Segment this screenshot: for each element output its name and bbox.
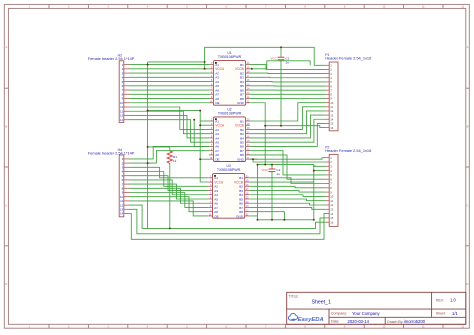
connector P1 1x16 female header [325, 53, 371, 131]
wire U1.GND rail to P1.16 [250, 103, 325, 128]
svg-text:Sheet:: Sheet: [436, 312, 446, 316]
svg-text:TXB0108PWR: TXB0108PWR [217, 168, 241, 172]
wire H2.13 to U2.A4 [129, 115, 209, 137]
resistor R1 1k [167, 147, 177, 164]
junction R1 bottom on rail A [169, 227, 171, 229]
wire rail to P2.3 [314, 165, 325, 167]
wire H2.8 to U1 pin 8 [129, 93, 209, 95]
capacitor C2 1u [261, 165, 280, 220]
wire U3.B to P2.8 [249, 186, 325, 188]
wire H4.12 via bottom rail A to P2.16 [129, 205, 325, 228]
svg-text:Female header 2.54 1*14P: Female header 2.54 1*14P [88, 150, 135, 155]
wire U3.B to P2.11 [249, 199, 325, 201]
junction R1 top [147, 146, 149, 148]
svg-text:12: 12 [461, 325, 464, 329]
connector P2 1x16 female header [325, 146, 371, 227]
IC U3 TXB0108PWR level shifter [208, 164, 249, 218]
wire H4.1 to U2.A7 [129, 146, 209, 158]
wire H4.4 to U3 pin [129, 172, 208, 187]
wire node [313, 165, 315, 167]
svg-text:VCC: VCC [270, 56, 277, 60]
junction H4 area crossing [147, 162, 149, 164]
junction C2 bottom [271, 219, 273, 221]
wire branch to P2.2 [253, 159, 325, 162]
svg-text:VCC: VCC [261, 168, 268, 172]
wire U2.B7 to P2.5 [250, 151, 325, 175]
wire U3.B8 down to GND rail [249, 212, 284, 220]
wire U2.B to P1.15 [250, 123, 325, 146]
wire H2.14 to U2.A5 [129, 120, 209, 142]
junction U1 VCCA [204, 68, 206, 70]
svg-text:A: A [6, 45, 8, 49]
svg-text:14: 14 [120, 212, 124, 216]
svg-text:TXB0108PWR: TXB0108PWR [218, 55, 242, 59]
IC U2 TXB0108PWR level shifter [209, 108, 250, 162]
svg-text:OE: OE [215, 101, 219, 105]
wire H4.5 to U3 pin [129, 176, 208, 191]
title block [287, 292, 466, 324]
wire H4.10 to U3 pin [129, 197, 208, 212]
wire U1.B to P1.2 [250, 65, 325, 70]
wire U1.B to P1.6 [250, 85, 325, 87]
svg-text:Drawn By:: Drawn By: [387, 320, 403, 324]
svg-text:A: A [467, 45, 469, 49]
wire H2.11 to U2.A2 [129, 107, 209, 129]
wire H4.14 via bottom rail C to P2.14 [129, 214, 325, 240]
svg-text:1.0: 1.0 [450, 298, 456, 303]
wire H2.4 to U1 pin 4 [129, 76, 209, 78]
wire U2.B8 to P2.6 [250, 155, 325, 179]
wire VCC vertical distribution [147, 62, 149, 229]
junction branch on H2.14 wire [193, 119, 195, 121]
wire U2.OE to vertical [200, 158, 209, 160]
junction C2 top [271, 164, 273, 166]
wire branch to U2.A1 [200, 120, 209, 122]
connector H2 1x14 female header [88, 54, 135, 123]
svg-text:TITLE:: TITLE: [289, 294, 299, 298]
svg-text:GND: GND [237, 157, 245, 161]
wire U3.B to P2.10 [249, 195, 325, 197]
wire U1.VCCB rail to VCC node [250, 61, 310, 69]
wire branch to U2.VCCA [200, 124, 209, 126]
svg-text:Company:: Company: [331, 312, 347, 316]
wire U2.GND to P2.1 [250, 158, 325, 159]
svg-text:GND: GND [237, 101, 245, 105]
wire H4.6 to U3 pin [129, 180, 208, 195]
svg-text:2020-03-14: 2020-03-14 [348, 319, 370, 324]
wire H2.12 to U2.A3 [129, 111, 209, 133]
wire VCC branch to U3.VCCA [148, 111, 209, 182]
junction P2.2 branch [252, 158, 254, 160]
junction GND joins mid rail [264, 164, 266, 166]
wire H4.3 to U3 pin [129, 167, 208, 178]
wire H2.7 to U1 pin 7 [129, 89, 209, 91]
wire U3.B to P2.9 [249, 191, 325, 193]
wire VCC vertical right [313, 165, 315, 220]
svg-text:D: D [467, 282, 469, 286]
wire H2.5 to U1 pin 5 [129, 81, 209, 83]
IC U1 TXB0108PWR level shifter [209, 51, 250, 105]
svg-text:Date:: Date: [331, 320, 339, 324]
wire H2.1 to U1 pin 1 [129, 64, 209, 66]
svg-text:REV:: REV: [436, 299, 444, 303]
svg-text:16: 16 [330, 126, 334, 130]
svg-text:10: 10 [382, 325, 385, 329]
junction B8 joins GND rail [283, 219, 285, 221]
junction U2 OE [199, 158, 201, 160]
svg-text:16: 16 [330, 220, 334, 224]
wire H4.2 to U2.A8 [129, 151, 209, 163]
wire U1.B8 to P1.9 [250, 98, 325, 100]
junction C1 bottom [280, 125, 282, 127]
wire H4.8 to U3 pin [129, 188, 208, 203]
svg-text:Your Company: Your Company [352, 311, 380, 316]
svg-text:Header Female 2.54_1x16: Header Female 2.54_1x16 [325, 56, 371, 61]
wire U1.B to P1.8 [250, 93, 325, 95]
svg-text:Sheet_1: Sheet_1 [312, 300, 331, 306]
wire R1 top to VCC vertical [148, 146, 170, 148]
wire mid rail VCC [258, 164, 314, 166]
wire H4.7 to U3 pin [129, 184, 208, 199]
wire R1 bottom down to rail [169, 164, 171, 229]
wire GND bottom rail [258, 219, 314, 221]
wire stub [314, 165, 316, 167]
wire H2.3 to U1 pin 3 [129, 72, 209, 74]
junction GND rail left [257, 219, 259, 221]
svg-text:imorro5200: imorro5200 [404, 319, 426, 324]
svg-text:10: 10 [382, 5, 385, 9]
junction C1 top on VCC rail [280, 46, 282, 48]
svg-text:OE: OE [215, 157, 219, 161]
wire U3.B to P2.13 [249, 207, 325, 209]
wire H4.11 to U3 pin [129, 201, 208, 216]
junction U1 GND rail [264, 125, 266, 127]
wire branch to P2.4 [314, 170, 325, 172]
svg-text:Female header 2.54 1*14P: Female header 2.54 1*14P [88, 56, 135, 61]
capacitor C1 1u [270, 47, 289, 125]
svg-text:TXB0108PWR: TXB0108PWR [218, 111, 242, 115]
junction U1 VCCB stub [251, 68, 253, 70]
junction VCC branch left [147, 110, 149, 112]
wire VCC rail 2 [148, 61, 205, 63]
wire U2.B to P1.14 [250, 119, 325, 142]
junction mid rail left [257, 164, 259, 166]
junction VCC branch right [199, 110, 201, 112]
wire U3.GND to mid vertical [249, 215, 257, 217]
junction GND rail right [313, 219, 315, 221]
wire U2.B to P1.13 [250, 115, 325, 138]
wire left mid vertical [257, 165, 259, 220]
svg-text:B: B [6, 125, 8, 129]
wire U2.B to P1.10 [250, 103, 325, 121]
wire H2.9 to U1 pin 9 [129, 98, 209, 100]
svg-text:11: 11 [422, 325, 425, 329]
wire U2.B to P1.12 [250, 111, 325, 134]
wire U1.B to P1.5 [250, 81, 325, 83]
svg-text:C: C [5, 204, 7, 208]
wire H2.6 to U1 pin 6 [129, 85, 209, 87]
svg-text:OE: OE [214, 214, 218, 218]
svg-text:12: 12 [461, 5, 464, 9]
wire H4.13 via bottom rail B to P2.15 [129, 209, 325, 234]
wire U2.GND to mid vertical [250, 158, 258, 160]
junction U2 VCCA [199, 124, 201, 126]
junction vertical crosses H2.1 wire [147, 64, 149, 66]
svg-text:14: 14 [120, 118, 124, 122]
svg-text:EasyEDA: EasyEDA [298, 317, 324, 323]
svg-text:1k: 1k [173, 159, 177, 163]
wire U3.VCCB to VCC vertical [249, 181, 314, 183]
wire U1.B to P1.3 [250, 72, 325, 75]
svg-text:1/1: 1/1 [452, 311, 458, 316]
junction rail2 joins riser [204, 61, 206, 63]
junction P2.4 branch [313, 170, 315, 172]
wire H2.10 to U1 pin 10 [129, 102, 209, 104]
svg-text:D: D [5, 282, 7, 286]
wire H2.2 to U1 pin 2 [129, 68, 209, 70]
wire U3.B to P2.12 [249, 203, 325, 205]
wire VCC rail to P1.1 [205, 47, 325, 69]
wire U1.B to P1.4 [250, 76, 325, 78]
svg-text:C: C [467, 204, 469, 208]
svg-text:1u: 1u [276, 172, 280, 176]
wire GND vertical to mid rail [264, 126, 266, 165]
svg-text:11: 11 [422, 5, 425, 9]
svg-text:B: B [467, 125, 469, 129]
wire branch to U2.A6 [194, 120, 209, 147]
wire U2.B to P1.11 [250, 107, 325, 130]
svg-text:GND: GND [236, 214, 244, 218]
EasyEDA logo [288, 313, 297, 320]
wire H4.9 to U3 pin [129, 193, 208, 208]
wire U1.B to P1.7 [250, 89, 325, 91]
svg-text:Header Female 2.54_1x16: Header Female 2.54_1x16 [325, 148, 371, 153]
connector H4 1x14 female header [88, 148, 135, 217]
wire U3.B to P2.7 [249, 178, 325, 184]
